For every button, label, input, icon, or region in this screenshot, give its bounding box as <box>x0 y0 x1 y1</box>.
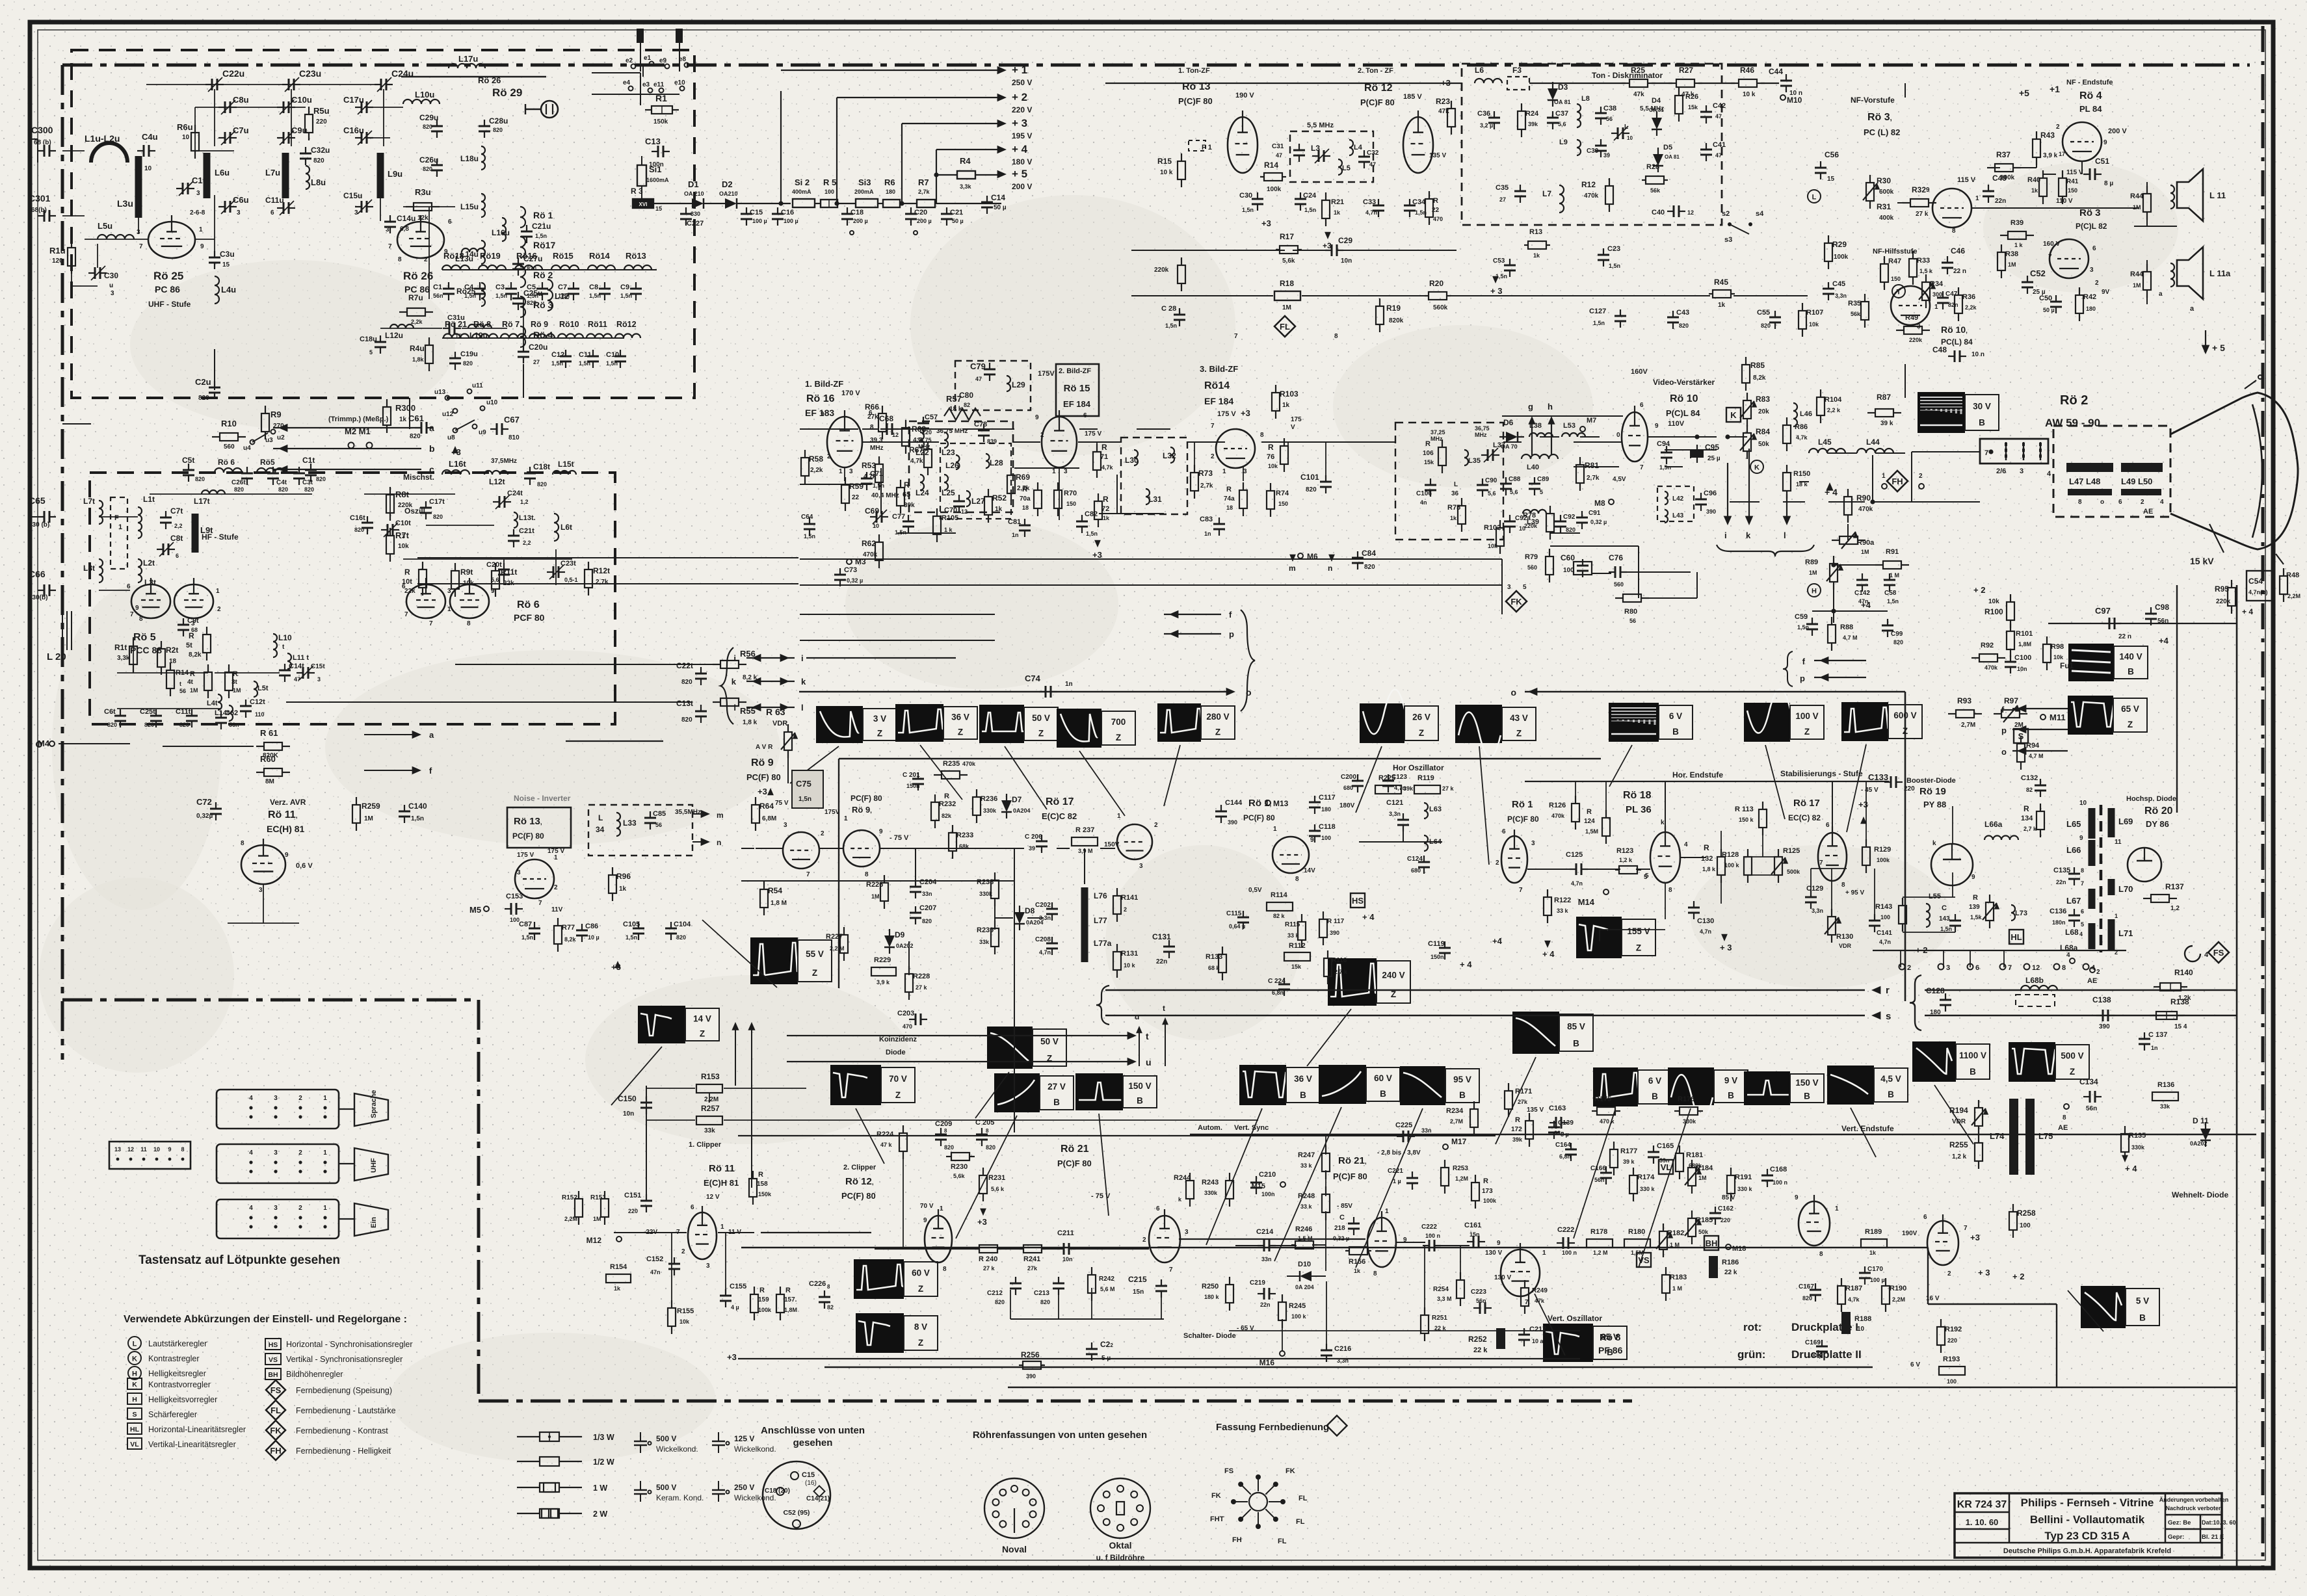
svg-text:560k: 560k <box>1433 304 1448 311</box>
svg-text:L30: L30 <box>1125 456 1139 465</box>
svg-text:C117: C117 <box>1319 794 1336 802</box>
cluster wires 21s <box>1179 1238 1365 1240</box>
svg-text:Rö 1: Rö 1 <box>533 210 553 220</box>
cap C152 <box>674 1257 675 1264</box>
svg-text:C142: C142 <box>1854 590 1870 597</box>
svg-text:C209: C209 <box>935 1120 952 1128</box>
svg-text:C60: C60 <box>1561 553 1575 562</box>
svg-text:MHz: MHz <box>870 445 884 452</box>
svg-text:68: 68 <box>191 627 198 633</box>
svg-text:K: K <box>132 1381 137 1389</box>
svg-text:+ 2: + 2 <box>1973 585 1985 595</box>
svg-text:Noval: Noval <box>1002 1544 1027 1554</box>
svg-text:3: 3 <box>517 869 521 876</box>
resistor R65 <box>900 480 901 488</box>
resistor R23 <box>1451 101 1452 109</box>
resistor R7 <box>917 200 935 207</box>
svg-text:15: 15 <box>655 205 662 212</box>
cap C49 <box>1988 185 1989 191</box>
svg-text:L24: L24 <box>916 488 929 497</box>
svg-text:1,5n: 1,5n <box>495 293 507 299</box>
svg-text:3: 3 <box>274 1095 278 1102</box>
svg-text:FK: FK <box>1211 1492 1221 1500</box>
svg-text:10: 10 <box>153 1146 160 1153</box>
svg-text:R14: R14 <box>1264 161 1278 170</box>
svg-text:R227: R227 <box>826 933 843 941</box>
svg-text:R102: R102 <box>1484 524 1501 532</box>
pushbutton switch block UHF <box>217 1144 339 1183</box>
svg-text:R: R <box>759 1287 765 1294</box>
svg-text:C121: C121 <box>1386 799 1403 807</box>
svg-text:L: L <box>133 1341 137 1348</box>
svg-text:VDR: VDR <box>772 720 787 727</box>
svg-text:Rö 3: Rö 3 <box>2079 207 2101 218</box>
svg-text:820: 820 <box>316 476 326 482</box>
svg-text:10 n: 10 n <box>1971 351 1984 358</box>
svg-text:1M: 1M <box>190 687 198 694</box>
svg-text:2,7 k: 2,7 k <box>2024 826 2037 832</box>
svg-text:3: 3 <box>237 209 241 216</box>
svg-text:400k: 400k <box>1879 215 1894 222</box>
svg-text:R116: R116 <box>1332 957 1347 964</box>
svg-text:1: 1 <box>839 468 843 475</box>
svg-text:55 V: 55 V <box>806 949 824 959</box>
svg-text:D9: D9 <box>895 930 905 939</box>
svg-text:L10: L10 <box>278 633 292 642</box>
svg-text:C217: C217 <box>1529 1326 1546 1333</box>
svg-text:Rö 8: Rö 8 <box>1600 1332 1621 1343</box>
svg-text:C 28: C 28 <box>1161 305 1176 313</box>
svg-text:39k: 39k <box>1512 1136 1523 1143</box>
svg-text:180n: 180n <box>2052 919 2066 926</box>
resistor R103 <box>1275 385 1276 393</box>
resistor R26 <box>1678 88 1680 96</box>
svg-text:C80: C80 <box>959 391 973 400</box>
svg-text:Helligkeitsregler: Helligkeitsregler <box>148 1369 206 1378</box>
svg-text:R 117: R 117 <box>1327 918 1345 925</box>
resistors R152 R151 <box>578 1191 579 1199</box>
svg-text:M5: M5 <box>469 905 481 915</box>
svg-text:5,5 MHz: 5,5 MHz <box>1640 105 1664 112</box>
svg-text:2,7k: 2,7k <box>1587 475 1600 482</box>
cap C143 <box>1955 914 1956 921</box>
svg-text:C74: C74 <box>1025 674 1041 683</box>
svg-text:C20u: C20u <box>529 343 547 352</box>
cap C94 <box>1666 446 1667 452</box>
svg-text:R90a: R90a <box>1857 539 1875 547</box>
svg-text:6: 6 <box>270 209 274 216</box>
svg-text:Rö 29: Rö 29 <box>492 86 522 99</box>
svg-text:1,2: 1,2 <box>2170 905 2180 912</box>
svg-text:R228: R228 <box>913 973 930 980</box>
svg-text:L68a: L68a <box>2060 943 2078 952</box>
svg-text:L47 L48: L47 L48 <box>2069 477 2100 486</box>
svg-text:R27: R27 <box>1679 66 1693 75</box>
svg-text:R182: R182 <box>1667 1229 1684 1237</box>
tube Roe11 <box>688 1212 717 1259</box>
svg-text:10k: 10k <box>398 543 409 550</box>
svg-text:C125: C125 <box>1566 851 1583 859</box>
svg-text:2: 2 <box>2096 969 2100 976</box>
svg-text:R1t: R1t <box>114 643 127 652</box>
svg-text:8: 8 <box>2078 499 2082 506</box>
svg-text:Video-Verstärker: Video-Verstärker <box>1653 378 1715 387</box>
svg-text:Kontrastvorregler: Kontrastvorregler <box>148 1380 211 1389</box>
svg-text:R 240: R 240 <box>979 1255 997 1263</box>
cap C23t <box>547 571 553 573</box>
cap C3u <box>214 251 215 257</box>
svg-text:R83: R83 <box>1756 395 1770 404</box>
svg-text:R4: R4 <box>960 156 971 166</box>
cap C39 <box>1600 139 1602 146</box>
svg-text:17: 17 <box>2059 151 2065 157</box>
svg-text:120: 120 <box>52 257 63 265</box>
fuse Si3 <box>856 199 878 207</box>
svg-text:4: 4 <box>2160 499 2164 506</box>
svg-text:1: 1 <box>554 854 558 861</box>
svg-text:33 k: 33 k <box>1557 908 1569 914</box>
svg-text:1/2 W: 1/2 W <box>593 1458 614 1467</box>
svg-text:D7: D7 <box>1012 795 1022 804</box>
svg-text:+ 3: + 3 <box>1978 1268 1990 1277</box>
flyback bar L66 <box>2089 840 2096 866</box>
resistor R5u <box>308 107 310 114</box>
svg-text:2: 2 <box>1907 964 1911 972</box>
resistor R188 filled <box>1841 1312 1851 1334</box>
svg-text:470 k: 470 k <box>1600 1118 1615 1125</box>
svg-text:R225: R225 <box>1378 774 1395 782</box>
svg-text:100 µ: 100 µ <box>784 218 798 224</box>
mid right wires <box>1912 451 1980 452</box>
svg-text:L5t: L5t <box>257 685 269 692</box>
svg-text:220k: 220k <box>1524 523 1538 529</box>
hor osc row resistors <box>1375 785 1401 794</box>
svg-text:C 205: C 205 <box>975 1119 994 1127</box>
resistor R85 <box>1745 357 1747 365</box>
svg-text:L49 L50: L49 L50 <box>2121 477 2152 486</box>
svg-text:C19u: C19u <box>460 350 478 358</box>
svg-text:Bildhöhenregler: Bildhöhenregler <box>286 1370 343 1379</box>
svg-text:R171: R171 <box>1515 1088 1532 1095</box>
svg-text:1,2: 1,2 <box>520 499 529 505</box>
svg-text:1,5n: 1,5n <box>620 293 632 299</box>
svg-text:20k: 20k <box>1758 408 1769 415</box>
diodes D4 D5 <box>1652 118 1662 129</box>
svg-text:FS: FS <box>2213 948 2224 958</box>
CRT neck dashed box <box>2053 426 2170 517</box>
svg-text:+3: +3 <box>1970 1233 1980 1242</box>
svg-text:1. Ton-ZF: 1. Ton-ZF <box>1178 67 1210 75</box>
svg-text:R: R <box>1226 486 1232 493</box>
svg-text:B: B <box>2128 667 2134 677</box>
svg-text:2,2k: 2,2k <box>411 319 423 325</box>
svg-text:R39: R39 <box>2010 219 2024 227</box>
svg-text:VDR: VDR <box>1839 943 1852 949</box>
tube Roe14 <box>1216 429 1255 468</box>
svg-text:M8: M8 <box>1594 499 1605 508</box>
svg-text:39k: 39k <box>1528 121 1538 127</box>
svg-text:15 4: 15 4 <box>2174 1023 2187 1030</box>
svg-text:155 V: 155 V <box>1627 926 1650 936</box>
coil L68b <box>2021 986 2057 990</box>
svg-text:2-6-8: 2-6-8 <box>190 209 205 216</box>
svg-text:3,9 M: 3,9 M <box>1078 848 1093 854</box>
resistor R238 <box>994 872 995 880</box>
tube Roe16 <box>827 417 862 467</box>
svg-text:- 2,8 bis - 3,8V: - 2,8 bis - 3,8V <box>1377 1149 1421 1157</box>
svg-text:C34: C34 <box>1412 198 1426 206</box>
svg-text:VS: VS <box>1638 1255 1650 1265</box>
svg-text:Rö 2: Rö 2 <box>2060 393 2088 408</box>
svg-text:M18: M18 <box>1732 1245 1746 1253</box>
resistor R175 boxed <box>1592 1110 1597 1112</box>
diode D6 <box>1506 432 1518 442</box>
svg-text:8,2k: 8,2k <box>189 651 202 659</box>
svg-text:820: 820 <box>922 918 932 924</box>
caps C142 C58 <box>1862 573 1863 580</box>
cap C101 <box>1325 475 1326 482</box>
resistor R19 <box>1379 298 1380 306</box>
svg-text:C10u: C10u <box>291 95 312 105</box>
svg-text:L10u: L10u <box>415 90 434 99</box>
cap C16t <box>367 516 368 523</box>
svg-text:C65: C65 <box>29 495 46 506</box>
pin 8 AE <box>2064 1104 2069 1109</box>
waveform scope inset 500 V Z <box>2009 1042 2055 1082</box>
svg-text:3: 3 <box>1064 468 1068 475</box>
cap C10t <box>381 529 388 530</box>
cap C20u <box>523 345 524 352</box>
legend boxed BH <box>265 1368 281 1380</box>
svg-text:70a: 70a <box>1020 495 1031 503</box>
svg-text:56n: 56n <box>433 293 443 299</box>
cap C16 <box>777 207 778 214</box>
svg-text:FH: FH <box>1232 1536 1242 1544</box>
svg-text:R192: R192 <box>1945 1326 1962 1333</box>
svg-text:10 a: 10 a <box>1532 1338 1544 1344</box>
svg-text:47: 47 <box>1715 152 1722 159</box>
svg-text:2,7k: 2,7k <box>596 579 609 586</box>
svg-text:R95: R95 <box>2215 584 2229 594</box>
svg-text:C92: C92 <box>1563 514 1575 521</box>
svg-text:Mischst.: Mischst. <box>403 473 434 482</box>
cap C46 <box>1947 256 1948 263</box>
svg-text:50 V: 50 V <box>1032 713 1050 723</box>
cap C70 <box>958 495 960 501</box>
svg-text:+3: +3 <box>977 1217 987 1227</box>
svg-text:6,8M: 6,8M <box>762 815 776 822</box>
svg-text:5,6: 5,6 <box>1488 490 1496 497</box>
resistor R226 <box>884 875 885 883</box>
svg-text:100: 100 <box>1947 1378 1957 1385</box>
svg-text:39k: 39k <box>1403 785 1414 792</box>
svg-text:Bellini - Vollautomatik: Bellini - Vollautomatik <box>2030 1513 2145 1526</box>
svg-text:100: 100 <box>824 189 834 195</box>
svg-text:B: B <box>1053 1097 1060 1107</box>
svg-text:12 V: 12 V <box>706 1194 720 1201</box>
svg-text:3,3n: 3,3n <box>1812 908 1823 914</box>
svg-text:6: 6 <box>1502 828 1506 835</box>
svg-text:2: 2 <box>2141 499 2144 506</box>
svg-text:Druckplatte II: Druckplatte II <box>1791 1348 1862 1361</box>
coil L4t <box>218 694 222 710</box>
svg-text:R35: R35 <box>1848 300 1861 307</box>
tube Roe6 a <box>406 584 445 618</box>
svg-text:C24t: C24t <box>507 490 523 497</box>
svg-text:2,2: 2,2 <box>523 540 531 546</box>
svg-text:P(C)F 80: P(C)F 80 <box>1178 96 1213 106</box>
wire leader lines to scope insets <box>790 746 839 783</box>
svg-text:e2: e2 <box>626 57 633 64</box>
resistor R39 <box>2000 235 2008 236</box>
svg-text:D5: D5 <box>1663 144 1672 151</box>
svg-text:R1u: R1u <box>49 246 66 255</box>
cap C150 <box>646 1096 647 1103</box>
svg-text:C13t: C13t <box>676 699 693 708</box>
svg-text:33 k: 33 k <box>1300 1162 1313 1169</box>
svg-text:Rö 16: Rö 16 <box>806 393 835 404</box>
svg-text:Si1: Si1 <box>649 164 662 174</box>
svg-text:R74: R74 <box>1276 490 1289 497</box>
wire stub mid <box>806 657 956 659</box>
svg-text:500 V: 500 V <box>656 1434 676 1443</box>
svg-text:8 µ: 8 µ <box>1561 1131 1569 1138</box>
svg-text:Verwendete Abkürzungen der Ein: Verwendete Abkürzungen der Einstell- und… <box>124 1314 407 1325</box>
svg-text:Fassung Fernbedienung: Fassung Fernbedienung <box>1216 1422 1329 1433</box>
svg-text:2,2M: 2,2M <box>2287 593 2300 599</box>
svg-text:1: 1 <box>1835 1205 1839 1212</box>
svg-text:2,2k: 2,2k <box>810 467 823 474</box>
svg-text:0,32 µ: 0,32 µ <box>1590 519 1607 525</box>
svg-text:330k: 330k <box>1204 1190 1218 1196</box>
resistor R256 boxed <box>1019 1365 1023 1366</box>
cap C164 <box>1570 1143 1572 1149</box>
svg-text:9: 9 <box>200 243 204 250</box>
cap C138 <box>2096 1015 2103 1016</box>
tube Roe7 <box>1927 1221 1958 1265</box>
svg-text:D10: D10 <box>1298 1261 1311 1268</box>
wire grid extras <box>741 848 754 849</box>
resistor R242 <box>1091 1267 1092 1275</box>
svg-text:n: n <box>717 838 721 847</box>
svg-text:R25: R25 <box>1631 66 1645 75</box>
M4 circle <box>36 742 42 747</box>
svg-text:L45: L45 <box>1818 438 1832 447</box>
svg-text:2: 2 <box>217 606 221 613</box>
svg-text:C29u: C29u <box>419 113 438 122</box>
svg-text:100 n: 100 n <box>1562 1249 1577 1256</box>
svg-text:C16t: C16t <box>350 514 365 522</box>
svg-text:2,7M: 2,7M <box>1961 722 1975 729</box>
svg-text:R123: R123 <box>1616 847 1633 855</box>
svg-text:9: 9 <box>1795 1194 1799 1201</box>
trimmer C23u <box>282 84 289 85</box>
svg-text:H: H <box>1812 588 1817 595</box>
svg-text:+5: +5 <box>2019 88 2029 98</box>
coil Ro26 lower <box>481 283 485 306</box>
svg-text:D2: D2 <box>722 179 733 189</box>
svg-text:8: 8 <box>1295 876 1299 883</box>
svg-text:1: 1 <box>1882 473 1886 480</box>
svg-text:Rö16: Rö16 <box>516 251 537 261</box>
svg-text:6,8n: 6,8n <box>1272 989 1284 996</box>
svg-text:3: 3 <box>706 1262 710 1270</box>
coil L9 <box>1577 140 1581 155</box>
cap C117 C118 <box>1314 796 1315 802</box>
svg-text:330 k: 330 k <box>1737 1186 1753 1192</box>
cap C144 <box>1220 805 1222 811</box>
svg-text:L: L <box>1812 194 1817 202</box>
svg-text:R243: R243 <box>1202 1179 1219 1186</box>
svg-text:Rö 9,: Rö 9, <box>852 805 872 815</box>
svg-text:+ 95 V: + 95 V <box>1845 889 1865 896</box>
trimmer C24u <box>375 84 381 85</box>
resistor R3 boxed <box>633 199 653 208</box>
svg-text:1,5n: 1,5n <box>1940 926 1952 932</box>
resistor R35 <box>1864 294 1865 302</box>
pushbutton switch block Ein <box>217 1199 339 1238</box>
resistor R1t <box>133 638 134 646</box>
svg-text:L25: L25 <box>942 488 955 497</box>
svg-text:18: 18 <box>1022 504 1029 511</box>
svg-text:9: 9 <box>1971 874 1975 881</box>
svg-text:R69: R69 <box>1016 473 1030 482</box>
svg-text:R10: R10 <box>221 419 237 428</box>
svg-text:820: 820 <box>537 481 547 488</box>
cap C51 <box>2083 174 2090 175</box>
svg-text:R7u: R7u <box>408 293 423 302</box>
svg-text:70 V: 70 V <box>920 1203 934 1210</box>
svg-text:D1: D1 <box>688 179 699 189</box>
svg-text:100: 100 <box>1880 914 1890 921</box>
svg-text:47k: 47k <box>1535 1298 1545 1304</box>
svg-text:R4u: R4u <box>410 344 425 353</box>
noval socket drawing <box>984 1478 1044 1538</box>
svg-text:172: 172 <box>1511 1126 1522 1133</box>
resistor R4 <box>957 171 975 179</box>
coil L66a <box>1984 836 2018 840</box>
svg-text:85 V: 85 V <box>1722 1194 1735 1201</box>
svg-text:Typ 23 CD 315 A: Typ 23 CD 315 A <box>2044 1530 2129 1542</box>
tube Roe7s <box>1799 1201 1830 1246</box>
svg-text:2: 2 <box>1211 453 1215 460</box>
svg-text:22 k: 22 k <box>1473 1346 1488 1354</box>
resistor R180 boxed <box>1624 1239 1650 1248</box>
svg-text:u10: u10 <box>486 399 498 406</box>
svg-text:M13: M13 <box>1273 799 1289 808</box>
svg-text:+ 4: + 4 <box>1012 143 1028 155</box>
svg-text:C219: C219 <box>1250 1279 1265 1287</box>
svg-text:R54: R54 <box>768 886 782 895</box>
svg-text:R: R <box>1587 808 1592 816</box>
svg-text:HL: HL <box>2010 932 2022 942</box>
resistor R102 <box>1499 520 1501 528</box>
svg-text:C77: C77 <box>892 513 905 521</box>
svg-text:grün:: grün: <box>1737 1348 1765 1361</box>
svg-text:250 V: 250 V <box>734 1483 754 1492</box>
coil L39 <box>1523 510 1546 514</box>
waveform scope inset 280 V Z <box>1157 703 1201 742</box>
f p o arrows right of brace <box>2012 708 2068 709</box>
svg-text:C301: C301 <box>29 193 51 203</box>
svg-text:150 k: 150 k <box>1739 817 1754 823</box>
svg-text:1,2 M: 1,2 M <box>1593 1249 1608 1256</box>
svg-text:R154: R154 <box>610 1263 627 1271</box>
caps C42 C41 <box>1706 105 1707 112</box>
svg-text:0A202: 0A202 <box>896 943 914 949</box>
svg-text:C119: C119 <box>1428 940 1445 948</box>
svg-text:Rö 2: Rö 2 <box>533 270 553 280</box>
